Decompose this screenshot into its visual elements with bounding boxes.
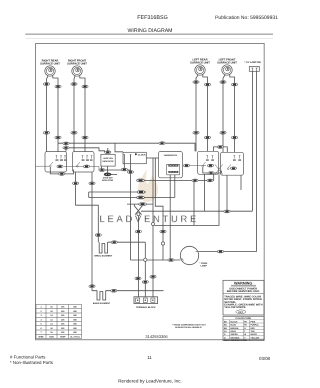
svg-text:BLUE: BLUE	[231, 324, 237, 327]
svg-text:INDICATOR: INDICATOR	[102, 179, 113, 182]
svg-text:RED: RED	[251, 327, 256, 330]
svg-text:GREEN/YELLOW: GREEN/YELLOW	[231, 339, 247, 342]
svg-text:GRAY: GRAY	[231, 330, 237, 333]
svg-text:BROIL ELEMENT: BROIL ELEMENT	[94, 255, 112, 258]
svg-text:* Non-Illustrated Parts: * Non-Illustrated Parts	[10, 360, 54, 365]
svg-text:YELLOW: YELLOW	[251, 336, 260, 339]
svg-text:BROWN: BROWN	[231, 327, 239, 330]
svg-text:TERMINAL BLOCK: TERMINAL BLOCK	[136, 306, 156, 309]
svg-text:Publication No: 5995509931: Publication No: 5995509931	[215, 15, 278, 21]
svg-text:KEY: KEY	[238, 311, 243, 314]
svg-text:ORANGE: ORANGE	[231, 336, 240, 339]
svg-text:03/08: 03/08	[259, 356, 271, 361]
svg-text:TAN: TAN	[251, 330, 256, 333]
svg-text:SURF IGN: SURF IGN	[103, 157, 113, 160]
svg-text:3142553306: 3142553306	[145, 334, 168, 339]
svg-text:SURFACE UNIT: SURFACE UNIT	[190, 61, 210, 64]
svg-text:11: 11	[147, 355, 152, 360]
svg-text:GN/Y: GN/Y	[224, 339, 230, 342]
svg-text:# Functional Parts: # Functional Parts	[10, 355, 46, 360]
svg-text:SURFACE UNIT: SURFACE UNIT	[40, 62, 60, 65]
svg-text:WIRING DIAGRAM: WIRING DIAGRAM	[128, 28, 173, 34]
svg-text:WHITE: WHITE	[251, 333, 258, 336]
svg-text:TEMP: TEMP	[60, 335, 66, 338]
svg-text:UL STYLE: UL STYLE	[70, 335, 80, 338]
svg-text:FEF316BSG: FEF316BSG	[137, 15, 168, 21]
svg-text:GREEN: GREEN	[231, 333, 239, 336]
svg-text:WARNING: WARNING	[234, 282, 252, 286]
svg-text:WIRE: WIRE	[38, 335, 44, 338]
svg-text:PINK: PINK	[251, 320, 256, 323]
svg-text:AWG: AWG	[49, 335, 54, 338]
svg-text:BLACK: BLACK	[231, 320, 239, 323]
svg-text:SURFACE UNIT: SURFACE UNIT	[217, 61, 237, 64]
svg-text:YELLOW STRIPE.: YELLOW STRIPE.	[224, 306, 246, 309]
svg-text:INDICATOR: INDICATOR	[103, 160, 114, 163]
svg-text:* OV LAMP SW: * OV LAMP SW	[245, 61, 262, 64]
svg-text:APPEAR ON ALL MODELS.: APPEAR ON ALL MODELS.	[175, 326, 202, 329]
svg-text:W: W	[244, 333, 246, 336]
svg-text:CLOCK: CLOCK	[138, 154, 146, 157]
svg-text:Rendered by LeadVenture, Inc.: Rendered by LeadVenture, Inc.	[118, 378, 182, 383]
svg-text:LAMP: LAMP	[201, 265, 208, 268]
svg-text:LEADVENTURE: LEADVENTURE	[100, 214, 200, 224]
svg-text:BEFORE SERVICING UNIT.: BEFORE SERVICING UNIT.	[227, 290, 260, 293]
svg-text:* OVEN: * OVEN	[200, 262, 208, 265]
svg-text:SURFACE UNIT: SURFACE UNIT	[67, 62, 87, 65]
svg-text:BAKE ELEMENT: BAKE ELEMENT	[93, 302, 111, 305]
svg-text:PURPLE: PURPLE	[251, 324, 260, 327]
svg-text:THERMOSTAT: THERMOSTAT	[163, 154, 178, 157]
